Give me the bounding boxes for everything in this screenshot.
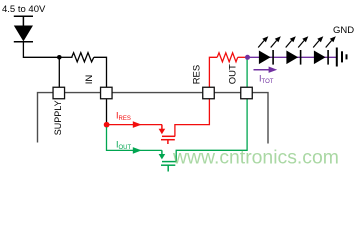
wire IOUT (green) node B down and right to Q2: [107, 127, 162, 150]
Q2 source arrowhead: [159, 154, 166, 159]
resistor R2 (red, sense resistor): [217, 53, 238, 62]
Q1 source arrowhead: [159, 129, 166, 134]
wire IRES (red) node B to Q1: [107, 124, 163, 126]
LED D4 light arrows: [313, 36, 323, 47]
node C junction dot (purple): [245, 55, 250, 60]
ground symbol GND: [337, 48, 347, 67]
node A junction dot: [57, 55, 62, 60]
LED D3: [287, 50, 301, 65]
svg-text:SUPPLY: SUPPLY: [53, 100, 63, 135]
wire R2 to node C (red): [238, 56, 248, 58]
pin RES terminal square: [203, 87, 215, 99]
wire node A to resistor R1: [59, 56, 72, 58]
IRES current arrowhead: [133, 121, 142, 128]
wire Q2 drain to OUT pin (green): [176, 57, 247, 161]
svg-text:OUT: OUT: [228, 64, 239, 84]
ITOT current arrow (purple): [254, 69, 271, 71]
wire diode to node A: [23, 42, 59, 58]
transistor Q1 (red sense FET): [161, 125, 175, 144]
node B junction dot (red): [104, 122, 110, 128]
LED D2: [259, 50, 273, 65]
diode D1: [14, 16, 33, 42]
pin SUPPLY terminal square: [53, 87, 65, 99]
svg-text:www.cntronics.com: www.cntronics.com: [172, 146, 339, 168]
svg-text:GND: GND: [333, 25, 354, 36]
wire IN pin down to node B: [106, 99, 108, 123]
wire Q1 drain to RES pin (red): [175, 57, 217, 136]
svg-text:IN: IN: [84, 75, 95, 85]
pin IN terminal square: [101, 87, 113, 99]
IOUT current arrowhead: [133, 147, 142, 154]
wire resistor R1 to IN pin: [94, 57, 107, 87]
svg-text:4.5 to 40V: 4.5 to 40V: [2, 4, 46, 15]
IC box outline U1: [38, 93, 269, 144]
resistor R1: [72, 53, 94, 62]
svg-text:RES: RES: [192, 65, 203, 85]
LED D3 light arrows: [286, 36, 296, 47]
wire node A to SUPPLY pin: [58, 57, 60, 87]
LED string wire (purple): [248, 56, 337, 58]
pin OUT terminal square: [241, 87, 253, 99]
transistor Q2 (green output FET): [161, 150, 176, 171]
LED D4: [314, 50, 328, 65]
LED D2 light arrows: [258, 36, 268, 47]
